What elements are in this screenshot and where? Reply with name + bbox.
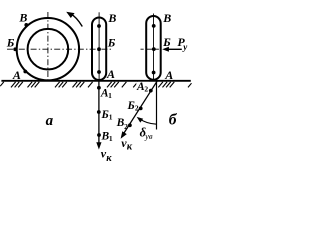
point B2	[128, 123, 132, 127]
middle wheel (deflated tire) stadium outline	[92, 18, 106, 81]
point B middle wheel	[97, 24, 101, 28]
point A2	[149, 89, 153, 93]
ground line	[1, 80, 190, 82]
point A right wheel	[152, 71, 156, 75]
svg-text:В: В	[18, 10, 27, 24]
svg-text:к: к	[127, 142, 133, 153]
svg-text:1: 1	[109, 134, 113, 143]
svg-text:ув: ув	[144, 131, 153, 141]
point A1	[97, 86, 101, 90]
point Б2	[139, 107, 143, 111]
point B1	[97, 133, 101, 137]
svg-text:В: В	[162, 11, 171, 25]
vertical dash-dot centerline of left wheel	[47, 12, 49, 80]
vertical reference line below right wheel	[156, 82, 158, 130]
right wheel stadium outline	[146, 16, 161, 80]
point A middle wheel	[97, 70, 101, 74]
point Б1	[97, 110, 101, 114]
point Б on left wheel	[13, 47, 17, 51]
svg-text:б: б	[169, 112, 178, 129]
horizontal dash-dot centerline (right segment)	[141, 48, 161, 50]
outer circle of left wheel (fig a)	[17, 18, 79, 80]
svg-text:Б: Б	[101, 109, 109, 121]
svg-text:Б: Б	[6, 36, 15, 50]
svg-text:В: В	[107, 11, 116, 25]
svg-text:2: 2	[144, 85, 148, 94]
svg-text:Б: Б	[162, 35, 171, 49]
ground hatching	[0, 82, 191, 88]
svg-text:2: 2	[124, 122, 128, 131]
svg-text:1: 1	[109, 113, 113, 122]
horizontal dash-dot centerline through wheel centers (left segment)	[7, 48, 113, 50]
white backing for A2 label	[136, 82, 149, 92]
point B on left wheel	[24, 23, 28, 27]
svg-text:к: к	[106, 153, 112, 164]
svg-text:1: 1	[108, 91, 112, 100]
svg-text:Б: Б	[127, 100, 135, 112]
point Б middle wheel	[97, 47, 101, 51]
slanted trajectory line below right wheel	[121, 81, 157, 139]
point A on left wheel	[23, 70, 27, 74]
trajectory line below middle wheel	[96, 82, 101, 150]
white backing for A1 label	[101, 88, 111, 96]
svg-text:А: А	[106, 67, 115, 81]
inner circle of left wheel (fig a)	[28, 29, 69, 70]
svg-text:Б: Б	[107, 36, 116, 50]
middle wheel vertical centerline	[98, 12, 100, 80]
rotation arrow (curved, counterclockwise)	[66, 12, 82, 27]
force arrow P_y pointing left at wheel	[162, 47, 182, 52]
point B right wheel	[152, 24, 156, 28]
svg-text:2: 2	[135, 103, 139, 112]
svg-text:а: а	[46, 113, 54, 129]
angle arc delta_uv	[137, 117, 157, 124]
point Б right wheel	[152, 47, 156, 51]
right wheel vertical centerline	[153, 14, 155, 80]
